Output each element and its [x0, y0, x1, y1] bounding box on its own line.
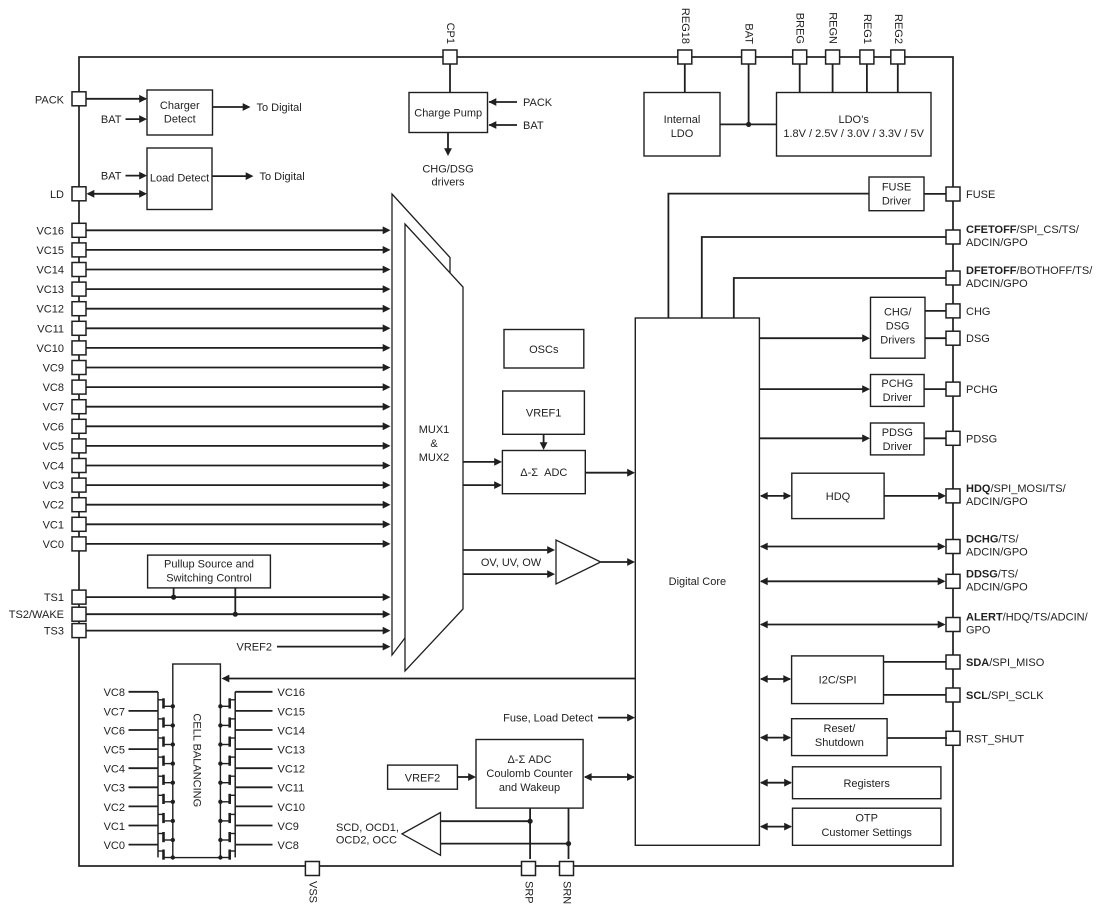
IC boundary frame	[79, 57, 953, 866]
pin VSS	[305, 862, 319, 904]
svg-text:OSCs: OSCs	[529, 344, 559, 356]
comparator OV/UV/OW	[556, 540, 601, 584]
svg-text:OCD2, OCC: OCD2, OCC	[336, 834, 397, 846]
svg-text:SRP: SRP	[523, 881, 535, 904]
block OTP Customer Settings	[793, 808, 941, 845]
svg-text:GPO: GPO	[966, 625, 991, 637]
wire CP1 to Charge Pump	[449, 64, 451, 93]
block CHG/DSG Drivers	[871, 297, 926, 358]
wire REG1 to LDOs	[866, 64, 868, 93]
pin VC9	[43, 361, 86, 375]
label BAT into Charger Detect	[101, 114, 147, 126]
svg-text:ALERT/HDQ/TS/ADCIN/: ALERT/HDQ/TS/ADCIN/	[966, 612, 1089, 624]
pin VC13	[36, 282, 86, 296]
cell-balance tap wire left VC5	[104, 745, 158, 757]
svg-text:VC2: VC2	[104, 802, 125, 814]
wire Pullup to TS1	[171, 588, 176, 600]
svg-text:VC8: VC8	[278, 840, 299, 852]
pin SRP	[522, 862, 536, 904]
pin VC0	[43, 537, 86, 551]
pin VC1	[43, 517, 86, 531]
svg-text:VC7: VC7	[43, 402, 64, 414]
cell-balance FET right 7	[218, 806, 235, 825]
svg-text:VC1: VC1	[104, 821, 125, 833]
svg-text:VC3: VC3	[43, 480, 64, 492]
wire Digital Core to CHG/DSG Drivers	[759, 334, 870, 342]
wire VC13 to MUX	[86, 285, 391, 293]
svg-text:LD: LD	[50, 189, 64, 201]
label BAT into Load Detect	[101, 171, 147, 183]
svg-text:Charger: Charger	[160, 100, 200, 112]
pin LD	[50, 187, 86, 201]
wire Internal LDO to LDOs	[720, 123, 777, 125]
cell-balance tap wire left VC8	[104, 687, 158, 699]
svg-text:BAT: BAT	[101, 171, 122, 183]
wire Digital Core to PCHG Driver	[759, 385, 870, 393]
svg-text:PDSG: PDSG	[882, 427, 913, 439]
wire VC0 to MUX	[86, 540, 391, 548]
wire LD to Load Detect (bidirectional)	[87, 190, 148, 198]
pin TS2/WAKE	[9, 607, 86, 621]
cell-balance tap wire right VC14	[235, 725, 305, 737]
svg-text:PACK: PACK	[523, 97, 553, 109]
cell-balance FET left 2	[158, 711, 175, 730]
wire VC7 to MUX	[86, 403, 391, 411]
cell-balance tap wire right VC11	[235, 783, 304, 795]
pin VC8	[43, 380, 86, 394]
svg-text:VC0: VC0	[43, 539, 64, 551]
cell-balance FET left 4	[158, 749, 175, 768]
wire comparator input 2	[441, 841, 572, 846]
svg-text:REG1: REG1	[861, 14, 873, 44]
pin HDQ (right)	[946, 483, 1067, 508]
svg-text:Switching Control: Switching Control	[166, 572, 252, 584]
svg-text:To Digital: To Digital	[257, 102, 302, 114]
wire VC3 to MUX	[86, 481, 391, 489]
svg-text:Internal: Internal	[664, 114, 701, 126]
wire TS1 to MUX	[86, 593, 391, 601]
pin REG18 (top)	[678, 8, 692, 64]
pin VC15	[36, 243, 86, 257]
svg-text:RST_SHUT: RST_SHUT	[966, 733, 1024, 745]
svg-text:CHG/: CHG/	[884, 307, 912, 319]
mux MUX1 (back shape)	[392, 194, 450, 655]
cell-balance FET right 3	[218, 730, 235, 749]
svg-text:REGN: REGN	[827, 12, 839, 44]
svg-text:VC12: VC12	[278, 764, 306, 776]
svg-text:Fuse, Load Detect: Fuse, Load Detect	[503, 712, 593, 724]
svg-text:VC8: VC8	[104, 687, 125, 699]
svg-text:Detect: Detect	[164, 114, 196, 126]
block OSCs	[504, 330, 584, 369]
svg-text:SDA/SPI_MISO: SDA/SPI_MISO	[966, 657, 1045, 669]
wire PDSG Driver to PDSG pin	[924, 437, 946, 439]
pin BREG (top)	[793, 13, 807, 64]
block CELL BALANCING	[173, 664, 221, 858]
svg-text:Customer Settings: Customer Settings	[821, 827, 912, 839]
svg-text:VC8: VC8	[43, 382, 64, 394]
svg-text:TS3: TS3	[44, 626, 64, 638]
pin REGN (top)	[826, 12, 840, 64]
wire Pullup to TS2	[233, 588, 238, 617]
wire Digital Core to CELL BALANCING	[222, 675, 636, 683]
pin DDSG (right)	[946, 568, 1028, 593]
wire VC2 to MUX	[86, 501, 391, 509]
pin VC5	[43, 439, 86, 453]
svg-text:VC13: VC13	[36, 284, 64, 296]
pin DFETOFF (right)	[946, 265, 1093, 290]
pin SRN	[560, 862, 574, 905]
block LDOs	[777, 93, 932, 157]
cell-balance tap wire right VC16	[235, 687, 305, 699]
wire VC5 to MUX	[86, 442, 391, 450]
svg-text:Driver: Driver	[882, 195, 912, 207]
block VREF2	[388, 765, 458, 789]
pin PDSG (right)	[946, 431, 997, 445]
pin VC6	[43, 419, 86, 433]
wire TS2/WAKE to MUX	[86, 610, 391, 618]
cell-balance tap wire left VC4	[104, 764, 158, 776]
wire SRP sense line	[529, 808, 531, 859]
svg-text:VC9: VC9	[278, 821, 299, 833]
block VREF1	[503, 391, 585, 434]
svg-text:LDO: LDO	[671, 128, 694, 140]
svg-text:PCHG: PCHG	[881, 378, 913, 390]
cell-balance tap wire right VC12	[235, 764, 305, 776]
pin PCHG (right)	[946, 382, 998, 396]
svg-text:CHG: CHG	[966, 306, 990, 318]
cell-balance tap wire left VC7	[104, 706, 158, 718]
svg-text:VC14: VC14	[36, 265, 64, 277]
wire CFETOFF to Digital Core	[702, 237, 946, 318]
cell-balance FET left 7	[158, 806, 175, 825]
wire MUX to ADC (2)	[463, 481, 502, 489]
svg-text:VC14: VC14	[278, 725, 306, 737]
wire VC6 to MUX	[86, 422, 391, 430]
svg-text:TS2/WAKE: TS2/WAKE	[9, 609, 64, 621]
svg-text:VC11: VC11	[37, 323, 64, 335]
svg-text:REG2: REG2	[892, 14, 904, 44]
wire VC16 to MUX	[86, 226, 391, 234]
block Registers	[793, 767, 941, 799]
svg-text:ADCIN/GPO: ADCIN/GPO	[966, 547, 1028, 559]
svg-text:DDSG/TS/: DDSG/TS/	[966, 568, 1019, 580]
svg-text:DSG: DSG	[886, 321, 910, 333]
comparator SCD/OCD/OCC	[402, 813, 441, 856]
svg-text:VC3: VC3	[104, 783, 125, 795]
wire Digital Core to Reset/Shutdown (bidirectional)	[760, 734, 791, 742]
wire Digital Core to DCHG pin (bidirectional)	[760, 543, 946, 551]
block Charger Detect	[147, 90, 213, 135]
cell-balance FET right 2	[218, 711, 235, 730]
svg-text:VREF2: VREF2	[405, 772, 440, 784]
pin SCL (right)	[946, 688, 1044, 702]
svg-text:Load Detect: Load Detect	[150, 173, 209, 185]
svg-text:VC15: VC15	[36, 245, 64, 257]
block Digital Core	[635, 318, 759, 845]
svg-text:Digital Core: Digital Core	[669, 576, 726, 588]
cell-balance tap wire left VC0	[104, 840, 158, 852]
wire Digital Core to ALERT pin (bidirectional)	[760, 621, 946, 629]
pin VC4	[43, 459, 86, 473]
pin ALERT (right)	[946, 612, 1089, 637]
svg-text:CFETOFF/SPI_CS/TS/: CFETOFF/SPI_CS/TS/	[966, 224, 1080, 236]
cell-balance FET left 9	[158, 845, 175, 860]
wire MUX to comparator (2)	[463, 570, 555, 578]
svg-text:VC7: VC7	[104, 706, 125, 718]
svg-text:VC10: VC10	[36, 343, 64, 355]
label PACK into Charge Pump	[489, 97, 553, 109]
pin CFETOFF (right)	[946, 224, 1080, 249]
pin VC3	[43, 478, 86, 492]
block Reset/Shutdown	[792, 719, 888, 756]
wire comparator input 1	[441, 819, 533, 824]
wire Charge Pump to CHG/DSG drivers	[422, 133, 473, 189]
wire Reset/Shutdown to RST_SHUT pin	[887, 737, 947, 739]
wire VC11 to MUX	[86, 324, 391, 332]
cell-balance tap wire right VC10	[235, 802, 305, 814]
svg-text:VC4: VC4	[104, 764, 125, 776]
svg-text:VC13: VC13	[278, 745, 306, 757]
svg-text:BREG: BREG	[794, 13, 806, 44]
svg-text:CHG/DSG: CHG/DSG	[422, 164, 473, 176]
mux MUX2 (front shape)	[405, 224, 463, 671]
wire FUSE Driver to FUSE pin	[924, 193, 946, 195]
pin REG2 (top)	[891, 14, 905, 64]
svg-text:MUX1: MUX1	[419, 424, 450, 436]
svg-text:FUSE: FUSE	[966, 189, 995, 201]
wire VC4 to MUX	[86, 462, 391, 470]
wire I2C/SPI to SDA pin	[884, 661, 947, 663]
svg-text:Drivers: Drivers	[880, 335, 915, 347]
wire VREF2 to Coulomb Counter	[457, 773, 476, 781]
pin TS1	[44, 590, 86, 604]
wire REGN to LDOs	[832, 64, 834, 93]
block Load Detect	[147, 148, 212, 210]
wire FUSE Driver to Digital Core	[668, 194, 869, 318]
svg-text:Charge Pump: Charge Pump	[414, 108, 482, 120]
svg-text:PCHG: PCHG	[966, 384, 998, 396]
cell-balance FET right 5	[218, 768, 235, 787]
svg-text:VC11: VC11	[278, 783, 305, 795]
label SCD, OCD1, OCD2, OCC	[336, 822, 399, 846]
svg-text:VC16: VC16	[36, 225, 64, 237]
svg-text:TS1: TS1	[44, 592, 64, 604]
svg-text:VSS: VSS	[306, 881, 318, 903]
wire REG2 to LDOs	[897, 64, 899, 93]
svg-text:Coulomb Counter: Coulomb Counter	[486, 768, 573, 780]
pin DCHG (right)	[946, 534, 1028, 559]
wire CHG/DSG Drivers to DSG pin	[925, 337, 946, 339]
wire VREF1 to ADC	[540, 434, 548, 450]
cell-balance FET right 4	[218, 749, 235, 768]
wire VC1 to MUX	[86, 520, 391, 528]
pin VC16	[36, 223, 86, 237]
wire ADC to Digital Core	[585, 469, 635, 477]
cell-balance FET left 8	[158, 826, 175, 845]
wire VC15 to MUX	[86, 246, 391, 254]
wire VC14 to MUX	[86, 266, 391, 274]
label OV, UV, OW	[481, 557, 542, 569]
wire HDQ to HDQ pin	[884, 492, 946, 500]
cell-balance FET left 3	[158, 730, 175, 749]
svg-text:VC6: VC6	[104, 725, 125, 737]
block FUSE Driver	[869, 177, 924, 211]
svg-text:SCD, OCD1,: SCD, OCD1,	[336, 822, 399, 834]
pin BAT (top)	[742, 23, 756, 64]
cell-balance tap wire left VC2	[104, 802, 158, 814]
wire I2C/SPI to SCL pin	[884, 694, 947, 696]
svg-text:VC1: VC1	[43, 519, 64, 531]
svg-text:DCHG/TS/: DCHG/TS/	[966, 534, 1020, 546]
svg-text:Shutdown: Shutdown	[815, 737, 864, 749]
wire Charger Detect to To Digital	[213, 102, 302, 114]
cell-balance FET left 5	[158, 768, 175, 787]
svg-text:CP1: CP1	[444, 23, 456, 44]
block Coulomb Counter ADC	[476, 740, 583, 809]
cell-balance tap wire left VC6	[104, 725, 158, 737]
pin VC14	[36, 263, 86, 277]
pin VC2	[43, 498, 86, 512]
svg-text:drivers: drivers	[431, 177, 465, 189]
svg-text:SCL/SPI_SCLK: SCL/SPI_SCLK	[966, 690, 1044, 702]
svg-text:VC2: VC2	[43, 500, 64, 512]
svg-text:VC10: VC10	[278, 802, 306, 814]
cell-balance FET left 1	[158, 692, 175, 711]
block PCHG Driver	[871, 375, 925, 407]
cell-balance FET right 8	[218, 826, 235, 845]
svg-text:VC12: VC12	[36, 304, 64, 316]
cell-balance FET right 1	[218, 692, 235, 711]
pin REG1 (top)	[860, 14, 874, 64]
svg-text:MUX2: MUX2	[419, 452, 450, 464]
svg-text:OV, UV, OW: OV, UV, OW	[481, 557, 542, 569]
svg-text:OTP: OTP	[855, 813, 878, 825]
svg-text:VREF1: VREF1	[526, 408, 561, 420]
cell-balance tap wire right VC13	[235, 745, 305, 757]
svg-text:ADCIN/GPO: ADCIN/GPO	[966, 496, 1028, 508]
label VREF2 into MUX	[237, 642, 391, 654]
svg-text:CELL BALANCING: CELL BALANCING	[190, 713, 202, 807]
block PDSG Driver	[871, 423, 925, 455]
svg-text:REG18: REG18	[679, 8, 691, 44]
svg-text:VC5: VC5	[43, 441, 64, 453]
svg-text:VC9: VC9	[43, 363, 64, 375]
block Charge Pump	[409, 93, 488, 133]
pin VC10	[36, 341, 86, 355]
svg-text:VC15: VC15	[278, 706, 306, 718]
svg-text:To Digital: To Digital	[260, 171, 305, 183]
label BAT into Charge Pump	[489, 120, 544, 132]
svg-text:Driver: Driver	[883, 392, 913, 404]
wire PCHG Driver to PCHG pin	[924, 388, 946, 390]
block HDQ	[792, 473, 884, 518]
svg-text:VC6: VC6	[43, 421, 64, 433]
svg-text:Pullup Source and: Pullup Source and	[164, 558, 254, 570]
wire BREG to LDOs	[799, 64, 801, 93]
svg-text:VC4: VC4	[43, 461, 64, 473]
wire VC8 to MUX	[86, 383, 391, 391]
wire Digital Core to OTP (bidirectional)	[760, 823, 792, 831]
cell-balance tap wire right VC9	[235, 821, 299, 833]
svg-text:ADCIN/GPO: ADCIN/GPO	[966, 581, 1028, 593]
wire Digital Core to DDSG pin (bidirectional)	[760, 577, 946, 585]
svg-text:SRN: SRN	[561, 881, 573, 904]
svg-text:Δ-Σ ADC: Δ-Σ ADC	[507, 754, 551, 766]
wire PACK to Charger Detect	[86, 95, 147, 103]
wire Digital Core to Registers (bidirectional)	[760, 779, 792, 787]
pin VC12	[36, 302, 86, 316]
cell-balance tap wire right VC8	[235, 840, 299, 852]
svg-text:BAT: BAT	[743, 23, 755, 44]
cell-balance tap wire left VC3	[104, 783, 158, 795]
svg-text:I2C/SPI: I2C/SPI	[819, 675, 857, 687]
svg-text:BAT: BAT	[101, 114, 122, 126]
svg-text:HDQ: HDQ	[826, 491, 851, 503]
block Pullup Source and Switching Control	[148, 555, 271, 588]
pin VC7	[43, 400, 86, 414]
wire MUX to comparator (1)	[463, 546, 555, 554]
wire VC9 to MUX	[86, 364, 391, 372]
pin CHG (right)	[946, 304, 990, 318]
pin SDA (right)	[946, 655, 1045, 669]
pin TS3	[44, 624, 86, 638]
wire Digital Core to HDQ (bidirectional)	[760, 492, 791, 500]
svg-text:and Wakeup: and Wakeup	[499, 782, 560, 794]
wire Digital Core to PDSG Driver	[759, 434, 870, 442]
wire BAT pin down	[748, 64, 750, 124]
label Fuse, Load Detect into Digital Core	[503, 712, 635, 724]
block I2C/SPI	[792, 656, 884, 704]
wire REG18 to Internal LDO	[684, 64, 686, 93]
cell-balance FET right 6	[218, 787, 235, 806]
wire comparator to Digital Core	[601, 558, 635, 566]
svg-text:ADCIN/GPO: ADCIN/GPO	[966, 237, 1028, 249]
wire Digital Core to I2C/SPI (bidirectional)	[760, 675, 791, 683]
svg-text:Reset/: Reset/	[824, 723, 857, 735]
wire CHG/DSG Drivers to CHG pin	[925, 310, 946, 312]
svg-text:FUSE: FUSE	[882, 182, 911, 194]
pin DSG (right)	[946, 331, 990, 345]
svg-text:DSG: DSG	[966, 333, 990, 345]
wire VC12 to MUX	[86, 305, 391, 313]
pin VC11	[37, 321, 86, 335]
wire Load Detect to To Digital	[212, 171, 305, 183]
wire MUX to ADC (1)	[463, 458, 502, 466]
wire VC10 to MUX	[86, 344, 391, 352]
svg-text:&: &	[430, 438, 438, 450]
cell-balance tap wire right VC15	[235, 706, 305, 718]
svg-text:1.8V / 2.5V / 3.0V / 3.3V / 5V: 1.8V / 2.5V / 3.0V / 3.3V / 5V	[783, 128, 924, 140]
svg-text:Δ-Σ ADC: Δ-Σ ADC	[520, 467, 567, 479]
pin FUSE (right)	[946, 187, 995, 201]
svg-text:LDO’s: LDO’s	[839, 114, 870, 126]
svg-text:VC5: VC5	[104, 745, 125, 757]
svg-text:Registers: Registers	[843, 778, 890, 790]
svg-text:PDSG: PDSG	[966, 433, 997, 445]
svg-text:VREF2: VREF2	[237, 642, 272, 654]
cell-balance FET left 6	[158, 787, 175, 806]
svg-text:HDQ/SPI_MOSI/TS/: HDQ/SPI_MOSI/TS/	[966, 483, 1067, 495]
svg-text:BAT: BAT	[523, 120, 544, 132]
svg-text:VC0: VC0	[104, 840, 125, 852]
block Delta-Sigma ADC	[502, 451, 585, 494]
svg-text:ADCIN/GPO: ADCIN/GPO	[966, 278, 1028, 290]
svg-text:VC16: VC16	[278, 687, 306, 699]
wire Coulomb Counter to Digital Core (bidirectional)	[584, 773, 635, 781]
wire DFETOFF to Digital Core	[734, 278, 946, 318]
svg-text:Driver: Driver	[883, 441, 913, 453]
